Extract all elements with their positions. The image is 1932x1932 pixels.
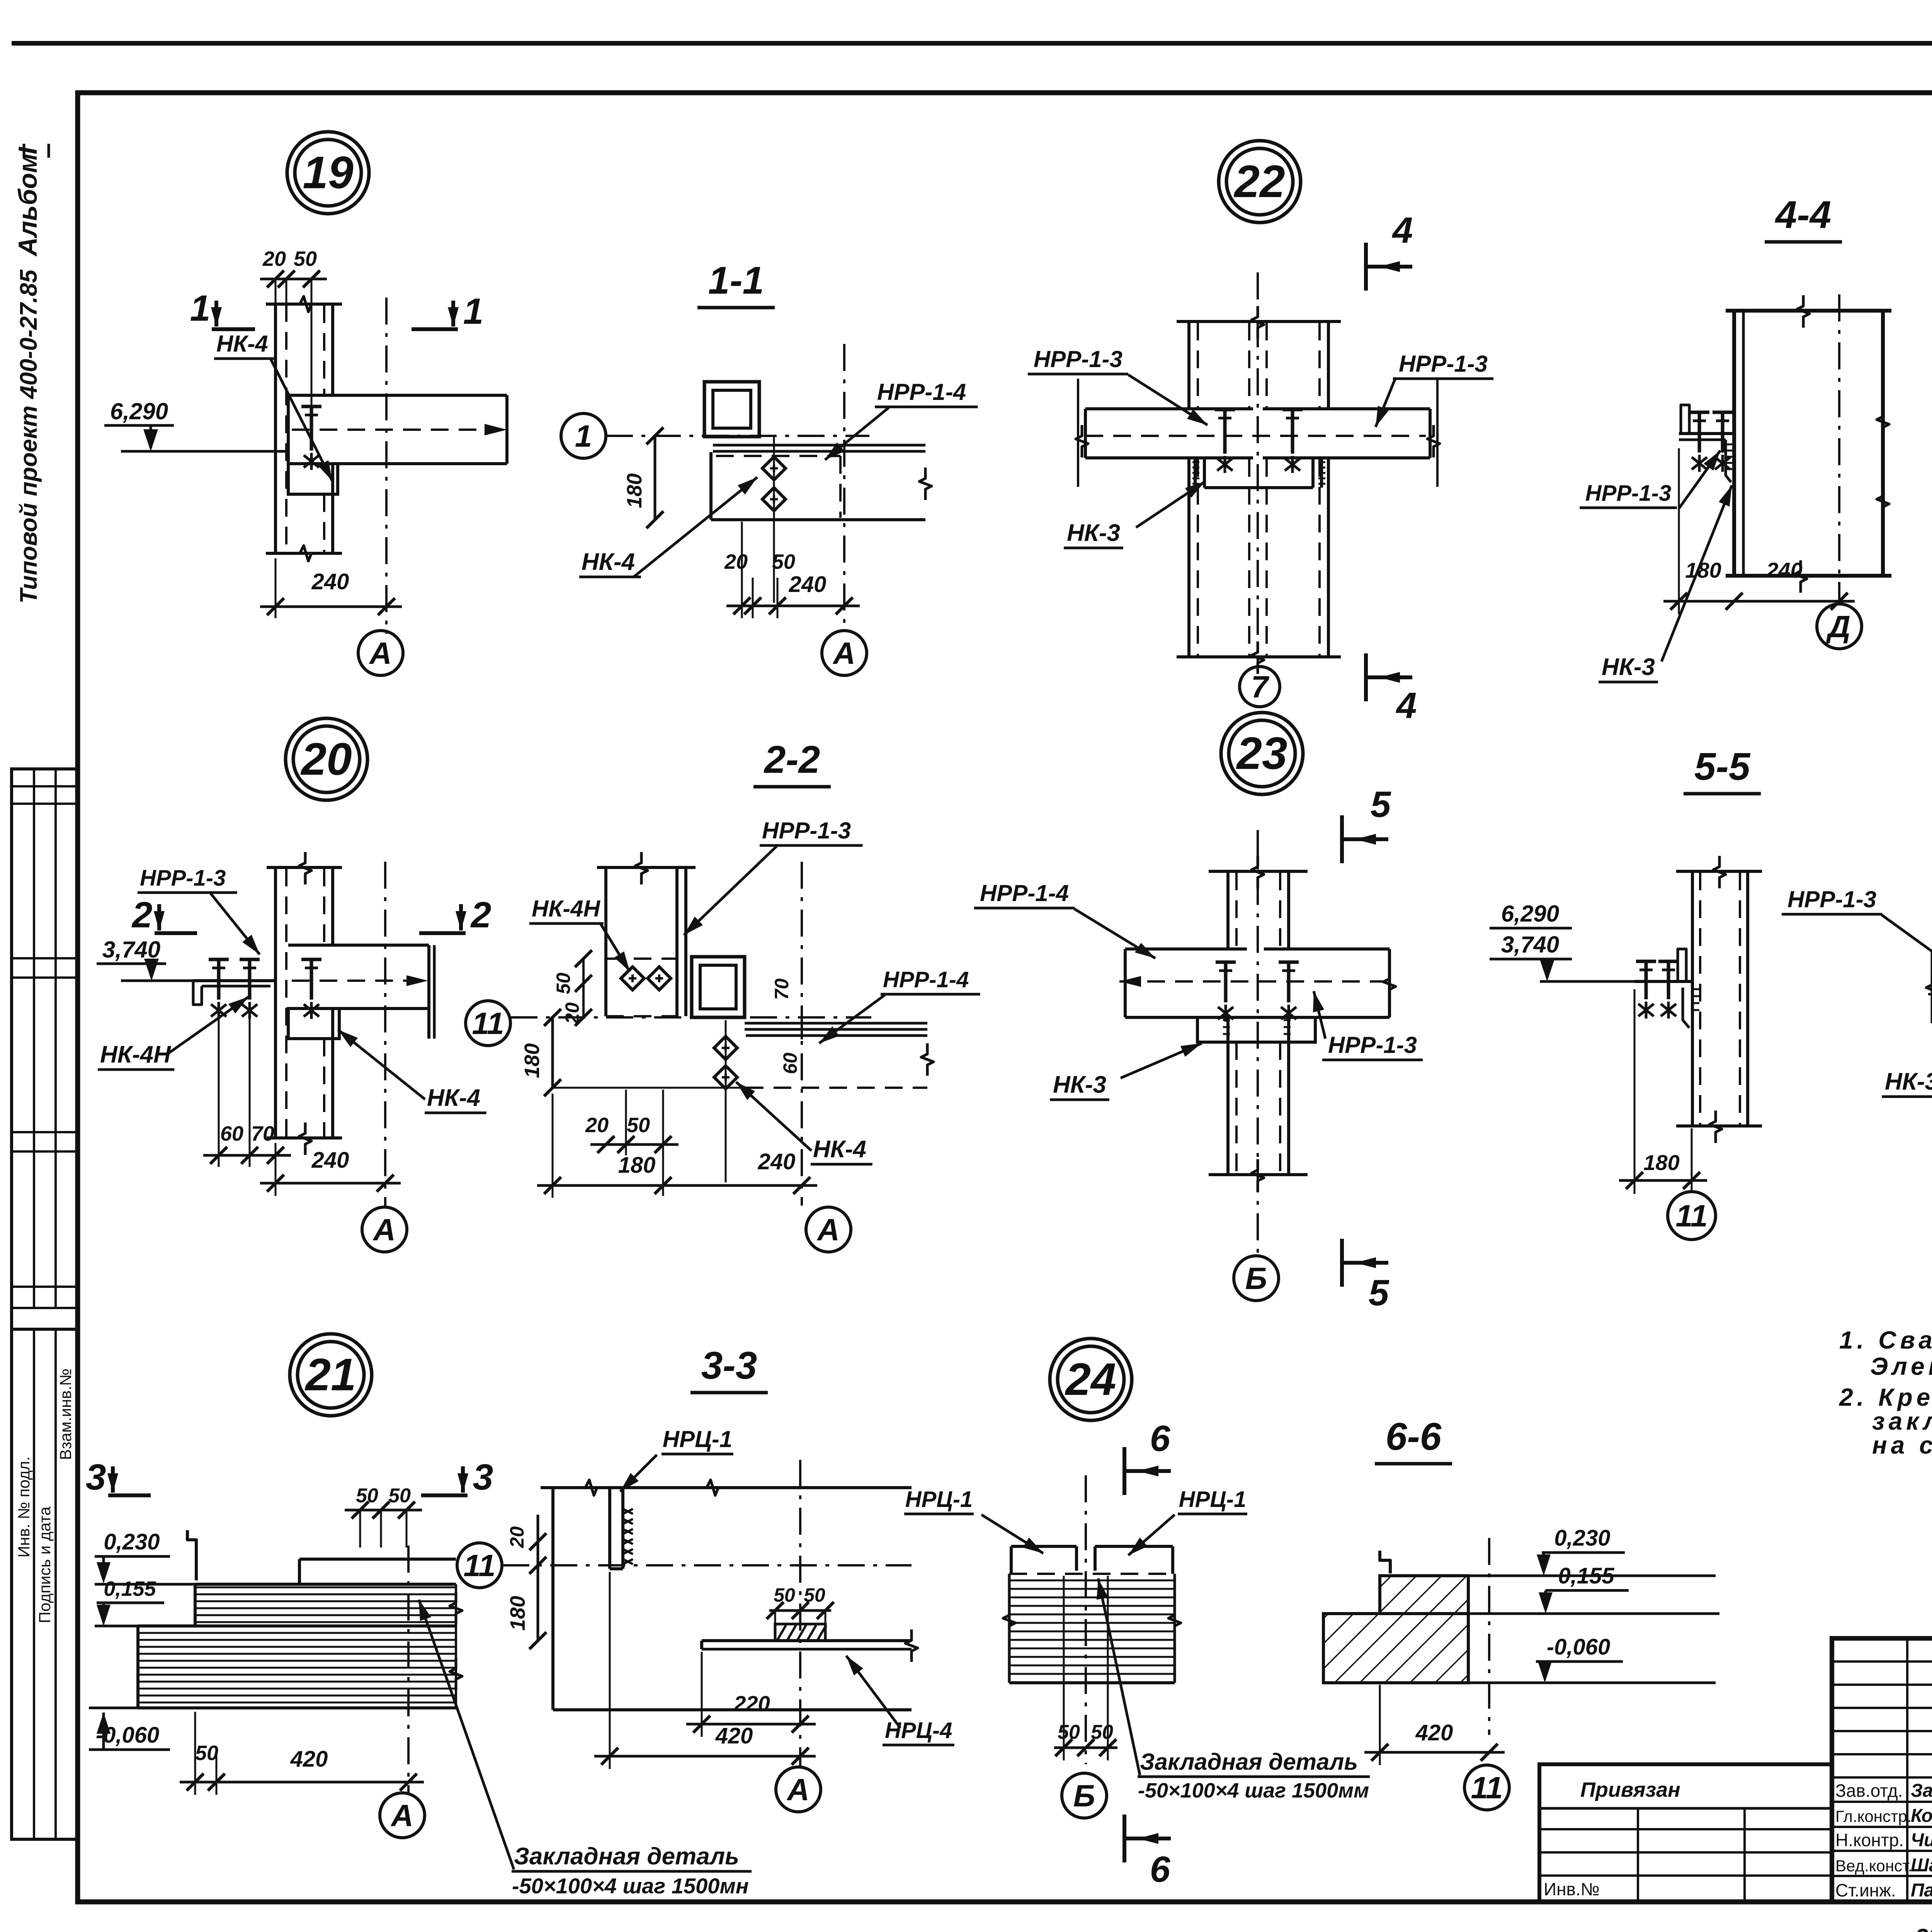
svg-text:20: 20 — [300, 734, 352, 785]
svg-text:180: 180 — [520, 1043, 544, 1078]
svg-text:2: 2 — [131, 895, 153, 935]
section flag 5 — [1342, 1239, 1389, 1313]
svg-text:Закладная деталь: Закладная деталь — [1140, 1749, 1358, 1775]
section mark 1 left — [190, 288, 255, 329]
dims 50 420 (detail 21) — [180, 1712, 424, 1795]
label НРР-1-3 right (detail 22) — [1376, 351, 1493, 427]
svg-text:НРР-1-3: НРР-1-3 — [1787, 886, 1876, 912]
bracket bolts (section 2-2) — [714, 1020, 737, 1182]
svg-text:240: 240 — [789, 572, 827, 597]
node А — [806, 1207, 851, 1252]
signature rows text — [1835, 1781, 1932, 1901]
svg-text:НРР-1-4: НРР-1-4 — [980, 880, 1069, 906]
label НРЦ-1 (section 3-3) — [620, 1426, 733, 1492]
svg-text:240: 240 — [1766, 558, 1802, 582]
svg-text:НРР-1-3: НРР-1-3 — [1034, 346, 1122, 372]
section title 1-1 — [697, 259, 775, 308]
svg-text:6-6: 6-6 — [1386, 1415, 1442, 1458]
svg-text:А: А — [832, 636, 855, 670]
svg-text:24: 24 — [1065, 1354, 1116, 1405]
axis vertical (section 2-2) — [801, 862, 803, 1206]
dims 60 70 (detail 20) — [203, 1009, 291, 1167]
labels НК-4Н НРР-1-3 (section 2-2) — [529, 818, 862, 972]
inventory strip under title block — [1915, 1924, 1932, 1932]
svg-text:2-2: 2-2 — [764, 738, 820, 781]
dim 240 (detail 20) — [260, 1143, 401, 1196]
Привязан table (left of title block) — [1539, 1764, 1832, 1902]
axis 11 horizontal (section 3-3) — [502, 1564, 912, 1566]
svg-text:50: 50 — [772, 550, 795, 573]
svg-text:0,155: 0,155 — [1558, 1563, 1614, 1588]
svg-text:50: 50 — [388, 1485, 411, 1507]
detail 19 bracket under beam — [288, 464, 338, 494]
level mark 6,290 — [104, 398, 288, 451]
detail 24 ribbed slab — [1003, 1574, 1181, 1683]
levels 6,290 3,740 (section 5-5) — [1490, 901, 1678, 981]
svg-text:НК-4: НК-4 — [582, 549, 635, 575]
detail 20 column — [267, 852, 342, 1155]
axis vertical (section 3-3) — [799, 1460, 801, 1766]
node А — [362, 1207, 407, 1252]
node 20 (detail marker circle) — [286, 718, 367, 800]
svg-text:на сварке по ГОСТ 5264-80-Т: на сварке по ГОСТ 5264-80-Т1-Δ4. — [1872, 1431, 1932, 1459]
sheet top rule — [12, 41, 1932, 46]
level -0,060 (detail 21) — [89, 1708, 170, 1750]
label НК-4Н (detail 20) — [98, 997, 248, 1070]
axis 11 horizontal (section 2-2) — [510, 1016, 871, 1019]
dims 20 50 240 (section 1-1) — [724, 522, 860, 618]
svg-text:Типовой проект 400-0-27.85: Типовой проект 400-0-27.85 — [15, 269, 42, 604]
svg-text:Б: Б — [1073, 1779, 1095, 1813]
svg-text:11: 11 — [463, 1548, 495, 1583]
detail 19 bolt — [301, 406, 321, 470]
node 7 — [1240, 667, 1280, 707]
detail 22 bolts — [1215, 410, 1303, 473]
svg-text:НРР-1-3: НРР-1-3 — [1328, 1032, 1417, 1058]
detail 23 bracket НК-3 — [1197, 1017, 1315, 1042]
section mark 2 right (detail 20) — [419, 895, 491, 935]
svg-text:23: 23 — [1236, 728, 1287, 779]
node 11 — [1668, 1192, 1716, 1240]
detail 20 ledger angle with bolts НК-4Н — [193, 959, 276, 1019]
svg-text:60: 60 — [779, 1053, 801, 1074]
svg-text:21: 21 — [304, 1349, 356, 1400]
svg-text:НК-4: НК-4 — [216, 331, 268, 357]
dim 240 (detail 19) — [260, 558, 402, 618]
section flag 6 — [1124, 1418, 1171, 1495]
svg-text:5: 5 — [1369, 1272, 1389, 1313]
dim 20 50 (detail 19) — [260, 247, 327, 410]
beam plan НРР-1-4 to the right (section 2-2) — [745, 1023, 934, 1088]
svg-text:НК-4: НК-4 — [813, 1136, 866, 1163]
svg-text:НК-3: НК-3 — [1602, 654, 1655, 680]
svg-text:НК-4Н: НК-4Н — [100, 1041, 171, 1068]
detail 23 column — [1209, 856, 1308, 1192]
bolts (section 1-1) — [762, 437, 786, 603]
svg-text:5: 5 — [1371, 784, 1391, 825]
vertical dim 180 (section 2-2) — [520, 1009, 746, 1096]
svg-text:50: 50 — [774, 1584, 795, 1606]
node Д — [1817, 604, 1862, 649]
detail 22 column (vertical, interrupted by beam) — [1177, 306, 1341, 674]
node А — [822, 631, 867, 675]
svg-text:А: А — [390, 1798, 413, 1833]
svg-text:1-1: 1-1 — [708, 259, 764, 302]
svg-text:Привязан: Привязан — [1580, 1778, 1680, 1801]
label НК-3 (detail 26) — [1882, 1048, 1932, 1097]
svg-text:Вед.конст.: Вед.конст. — [1835, 1857, 1912, 1875]
svg-text:50: 50 — [553, 973, 574, 994]
detail 21 corner angle — [187, 1530, 196, 1580]
dim 50 50 (detail 24) — [1054, 1576, 1117, 1760]
svg-text:НРР-1-4: НРР-1-4 — [877, 379, 966, 405]
svg-text:0,230: 0,230 — [1554, 1526, 1610, 1551]
svg-text:-50×100×4 шаг 1500мн: -50×100×4 шаг 1500мн — [512, 1874, 749, 1898]
axis of column (detail 22) — [1257, 272, 1259, 665]
hatched base section (section 6-6) — [1323, 1576, 1468, 1683]
label НК-3 (detail 22) — [1064, 481, 1205, 548]
axis (section 6-6) — [1488, 1538, 1490, 1735]
svg-text:Электроды типа Э42 по ГОСТ: Электроды типа Э42 по ГОСТ 9467-75 — [1870, 1352, 1932, 1380]
section mark 3 right (detail 21) — [421, 1457, 493, 1498]
section flag 5 — [1342, 784, 1391, 863]
svg-text:1: 1 — [575, 419, 592, 453]
dim 180 (section 5-5) — [1619, 989, 1707, 1194]
plate НК-4Н dashed (section 2-2) — [606, 959, 678, 1016]
svg-text:3-3: 3-3 — [701, 1344, 757, 1387]
svg-text:3,740: 3,740 — [1501, 932, 1559, 957]
svg-text:220: 220 — [733, 1691, 770, 1716]
svg-text:НРР-1-4: НРР-1-4 — [883, 967, 969, 992]
section mark 2 left (detail 20) — [131, 895, 197, 935]
column (section 5-5) — [1676, 856, 1762, 1143]
svg-text:3: 3 — [473, 1457, 493, 1498]
section title 4-4 — [1765, 193, 1842, 242]
detail 20 beam НРР-1-4 — [288, 945, 434, 1039]
svg-text:22: 22 — [1233, 156, 1285, 207]
detail 19 column НК-4 (vertical member) — [266, 296, 342, 561]
section title 2-2 — [753, 738, 831, 787]
svg-text:А: А — [372, 1213, 396, 1247]
svg-text:НК-3: НК-3 — [1067, 520, 1120, 546]
vertical dim 180 (section 1-1) — [623, 427, 663, 528]
svg-text:1: 1 — [463, 291, 484, 332]
section flag 4 — [1366, 210, 1413, 291]
svg-text:11: 11 — [472, 1006, 504, 1041]
small dims 50 20 70 60 (section 2-2) — [553, 950, 802, 1074]
svg-text:Павлова: Павлова — [1911, 1880, 1932, 1901]
svg-text:6,290: 6,290 — [110, 398, 168, 424]
svg-text:70: 70 — [771, 978, 793, 1000]
level 0,230 (section 6-6) — [1468, 1526, 1716, 1576]
svg-text:Коренцвит: Коренцвит — [1911, 1806, 1932, 1826]
node А — [380, 1793, 425, 1838]
node 24 (detail marker circle) — [1050, 1338, 1132, 1420]
node 11 — [466, 1001, 510, 1046]
label НРЦ-4 (section 3-3) — [846, 1656, 954, 1745]
svg-text:11: 11 — [1675, 1199, 1708, 1233]
axis (detail 21) — [407, 1546, 410, 1793]
label НК-4 (section 1-1) — [579, 477, 757, 577]
label НРЦ-1 left (detail 24) — [904, 1487, 1043, 1553]
level 0,155 (section 6-6) — [1468, 1563, 1719, 1614]
svg-text:180: 180 — [623, 473, 646, 508]
svg-text:Инв. № подл.: Инв. № подл. — [15, 1456, 33, 1558]
label НРР-1-3 left (detail 26) — [1782, 886, 1932, 974]
detail 19 beam НРР (horizontal member) — [288, 395, 507, 464]
svg-text:240: 240 — [311, 569, 349, 594]
label НК-4 (detail 19) — [214, 331, 332, 481]
level -0,060 (section 6-6) — [1468, 1634, 1716, 1683]
svg-text:19: 19 — [303, 147, 354, 198]
section title 3-3 — [690, 1344, 768, 1393]
left margin rotated title: Типовой проект 400-0-27.85 Альбом I — [13, 144, 49, 604]
dim 420 (section 3-3) — [594, 1572, 816, 1769]
wall panel (section 4-4) — [1726, 295, 1891, 593]
level mark 3,740 — [97, 937, 193, 981]
svg-text:НК-3: НК-3 — [1053, 1071, 1106, 1098]
svg-text:4-4: 4-4 — [1775, 193, 1832, 236]
svg-text:420: 420 — [1415, 1720, 1453, 1745]
detail 22 bottom brackets НК-3 with weld ticks — [1192, 458, 1325, 488]
wall plan (section 3-3) — [541, 1480, 912, 1710]
svg-text:6: 6 — [1150, 1849, 1171, 1890]
svg-text:Ст.инж.: Ст.инж. — [1835, 1880, 1896, 1900]
svg-text:1. Сварные швы по ГОСТ 526: 1. Сварные швы по ГОСТ 5264-80-Т1-Δ6. — [1839, 1326, 1932, 1354]
svg-text:НК-4Н: НК-4Н — [532, 896, 601, 922]
label Закладная деталь (detail 24) — [1097, 1578, 1370, 1802]
svg-text:11: 11 — [1471, 1770, 1503, 1805]
svg-text:Альбом: Альбом — [13, 153, 43, 257]
axis line 1 (section 1-1) — [606, 435, 869, 437]
detail 26 beams НРР-1-3 — [1926, 950, 1932, 1027]
node 11 — [457, 1543, 502, 1588]
label НРР-1-4 (section 1-1) — [825, 379, 978, 460]
svg-text:Закутный: Закутный — [1911, 1781, 1932, 1801]
svg-text:Чиркова: Чиркова — [1911, 1830, 1932, 1850]
upper column (section 2-2) — [597, 852, 696, 1016]
svg-text:240: 240 — [311, 1148, 349, 1173]
svg-text:0,230: 0,230 — [104, 1529, 160, 1554]
notes text — [1839, 1326, 1932, 1459]
svg-text:240: 240 — [758, 1149, 796, 1174]
label НРР-1-4 (detail 23) — [974, 880, 1155, 958]
axis (detail 23) — [1257, 830, 1259, 1254]
svg-text:НРР-1-3: НРР-1-3 — [762, 818, 851, 844]
beam plan НРР-1-4 (section 1-1) — [711, 445, 932, 520]
hatching (section 6-6) — [1323, 1576, 1468, 1683]
node 1 — [561, 413, 606, 458]
section flag 4 — [1366, 653, 1417, 726]
title block left signature grid — [1832, 1638, 1932, 1902]
label Закладная деталь (detail 21) — [419, 1600, 752, 1898]
title block main frame — [1832, 1638, 1932, 1902]
section flag 6 — [1124, 1815, 1171, 1890]
svg-text:НК-3: НК-3 — [1885, 1068, 1932, 1095]
svg-text:Закладная деталь: Закладная деталь — [514, 1843, 739, 1870]
svg-text:22510-01 32: 22510-01 32 — [1915, 1924, 1932, 1932]
column square section (2-2) — [692, 957, 745, 1017]
svg-text:50: 50 — [627, 1114, 650, 1137]
detail 20 bracket НК-4 under beam — [288, 1009, 339, 1039]
svg-text:А: А — [369, 636, 392, 670]
svg-text:60: 60 — [220, 1122, 243, 1145]
level 0,230 (detail 21) — [95, 1529, 195, 1584]
svg-text:НРЦ-1: НРЦ-1 — [663, 1426, 732, 1452]
detail 23 beams НРР-1-4 / НРР-1-3 — [1119, 949, 1396, 1022]
svg-text:180: 180 — [1685, 558, 1721, 582]
label НК-3 (section 4-4) — [1599, 485, 1732, 682]
node 22 (detail marker circle) — [1219, 141, 1301, 223]
detail 24 slab plan top plates — [1009, 1546, 1175, 1574]
node А — [358, 631, 403, 675]
section mark 3 left (detail 21) — [86, 1457, 151, 1498]
svg-text:20: 20 — [585, 1114, 609, 1137]
svg-text:420: 420 — [715, 1723, 753, 1748]
svg-text:4: 4 — [1396, 685, 1417, 726]
node А — [776, 1767, 821, 1812]
svg-text:А: А — [786, 1772, 810, 1807]
left stamp column table — [12, 769, 77, 1839]
svg-text:2: 2 — [470, 895, 492, 935]
svg-text:6,290: 6,290 — [1501, 901, 1559, 927]
detail 21 top beam plate — [195, 1559, 456, 1584]
svg-text:3: 3 — [86, 1457, 106, 1498]
dim 50 50 (detail 21) — [345, 1485, 422, 1548]
angle bracket with bolts (section 4-4) — [1679, 405, 1735, 482]
detail 22 beams НРР-1-3 (left and right) — [1076, 379, 1440, 487]
svg-text:50: 50 — [1058, 1721, 1080, 1743]
label НРР-1-3 (section 4-4) — [1580, 451, 1720, 509]
svg-text:180: 180 — [506, 1596, 529, 1631]
svg-text:-50×100×4 шаг 1500мм: -50×100×4 шаг 1500мм — [1138, 1779, 1369, 1802]
axis Д (section 4-4) — [1838, 294, 1840, 601]
svg-text:20: 20 — [506, 1526, 528, 1548]
svg-text:0,155: 0,155 — [104, 1577, 156, 1600]
svg-text:4: 4 — [1392, 210, 1413, 251]
vertical dims 20 180 (section 3-3) — [506, 1515, 546, 1649]
node 11 — [1464, 1765, 1509, 1810]
svg-text:180: 180 — [1643, 1150, 1679, 1175]
svg-text:3,740: 3,740 — [102, 937, 160, 963]
label НРР-1-3 left (detail 22) — [1028, 346, 1207, 425]
dims 20 50 180 240 (section 2-2) — [537, 1090, 817, 1198]
svg-text:1: 1 — [190, 288, 211, 329]
dim 50 50 above plate (section 3-3) — [767, 1584, 834, 1623]
svg-text:НРР-1-3: НРР-1-3 — [140, 866, 226, 891]
svg-text:Зав.отд.: Зав.отд. — [1835, 1781, 1903, 1801]
svg-text:Б: Б — [1245, 1261, 1267, 1296]
svg-text:50: 50 — [195, 1742, 218, 1765]
node 19 (detail marker circle) — [287, 132, 369, 214]
svg-text:НРР-1-3: НРР-1-3 — [1585, 481, 1671, 506]
level 0,155 (detail 21) — [95, 1577, 164, 1626]
detail 21 ribbed base slab — [138, 1584, 462, 1708]
svg-text:НРЦ-1: НРЦ-1 — [905, 1487, 973, 1512]
label НРР-1-3 (detail 23) — [1313, 991, 1423, 1060]
section mark 1 right — [412, 291, 483, 332]
svg-text:Шар: Шар — [1911, 1855, 1932, 1876]
svg-text:5-5: 5-5 — [1694, 745, 1751, 788]
detail 19 axis line A — [385, 298, 388, 634]
axis (detail 24) — [1085, 1475, 1087, 1764]
node Б — [1234, 1256, 1279, 1301]
svg-text:НК-4: НК-4 — [427, 1085, 480, 1111]
angle with bolts (section 5-5) — [1634, 949, 1699, 1028]
svg-text:20: 20 — [724, 550, 748, 573]
node Б — [1062, 1773, 1107, 1818]
label НК-4 (detail 20) — [338, 1030, 486, 1113]
svg-text:420: 420 — [290, 1747, 328, 1772]
svg-text:НРЦ-1: НРЦ-1 — [1179, 1487, 1246, 1512]
svg-text:Д: Д — [1826, 609, 1850, 644]
svg-text:А: А — [816, 1213, 840, 1247]
svg-text:50: 50 — [294, 247, 317, 270]
svg-text:70: 70 — [251, 1122, 274, 1145]
svg-text:I: I — [13, 146, 43, 154]
svg-text:180: 180 — [618, 1153, 656, 1178]
svg-text:20: 20 — [262, 247, 286, 270]
label НРЦ-1 right (detail 24) — [1128, 1487, 1247, 1555]
axis (detail 20) — [384, 862, 386, 1206]
svg-text:Инв.№: Инв.№ — [1544, 1879, 1600, 1899]
dim 220 (section 3-3) — [686, 1652, 816, 1737]
node 21 (detail marker circle) — [290, 1334, 372, 1416]
svg-text:6: 6 — [1150, 1418, 1171, 1459]
panel НРЦ-1 edge (section 3-3) — [610, 1489, 633, 1569]
svg-text:Подпись и дата: Подпись и дата — [36, 1506, 54, 1623]
node 23 (detail marker circle) — [1221, 713, 1303, 794]
svg-text:Взам.инв.№: Взам.инв.№ — [56, 1369, 75, 1460]
svg-text:-0,060: -0,060 — [1547, 1634, 1610, 1660]
base beam НРЦ-4 plan (section 3-3) — [702, 1629, 918, 1662]
svg-text:7: 7 — [1251, 670, 1270, 704]
embedded plate hatched (section 3-3) — [775, 1624, 826, 1641]
section title 6-6 — [1375, 1415, 1452, 1464]
dim 420 (section 6-6) — [1364, 1685, 1505, 1765]
label НРР-1-3 (detail 20) — [138, 866, 260, 954]
label НРР-1-4 right (section 2-2) — [819, 967, 980, 1043]
label НК-4 (section 2-2) — [736, 1082, 872, 1164]
column square section (1-1) — [704, 382, 759, 437]
svg-text:Н.контр.: Н.контр. — [1835, 1830, 1904, 1850]
svg-text:Гл.констр.: Гл.констр. — [1835, 1807, 1912, 1825]
svg-text:НРР-1-3: НРР-1-3 — [1399, 351, 1488, 377]
corner angle (section 6-6) — [1380, 1551, 1390, 1573]
axis vertical (1-1) — [843, 344, 845, 626]
section title 5-5 — [1684, 745, 1761, 794]
label НК-3 (detail 23) — [1050, 1043, 1202, 1100]
dim 180 240 (section 4-4) — [1663, 448, 1855, 614]
